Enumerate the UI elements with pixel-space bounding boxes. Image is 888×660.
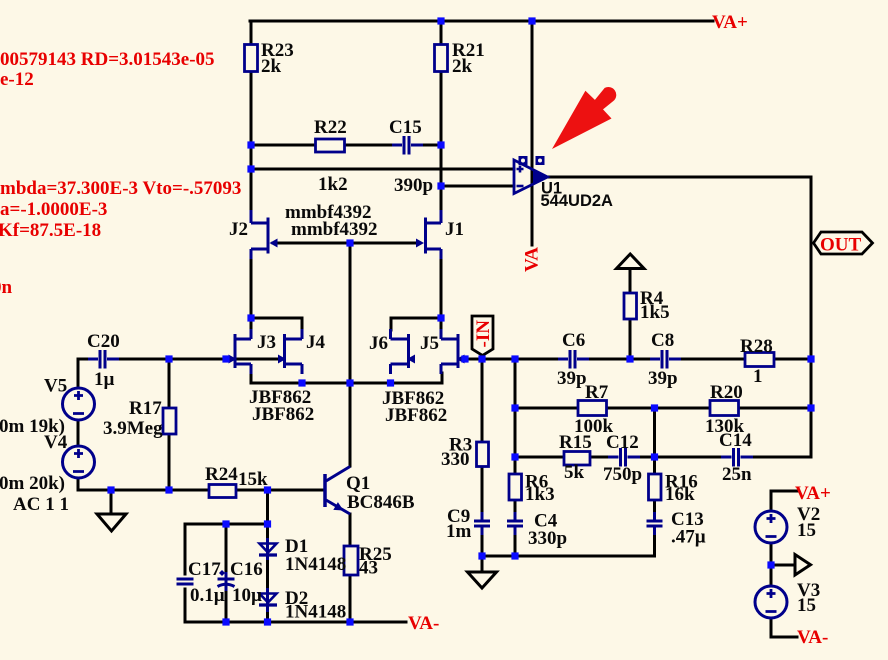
- svg-text:330: 330: [441, 449, 470, 470]
- svg-text:-IN: -IN: [473, 320, 494, 348]
- svg-text:15: 15: [797, 520, 816, 541]
- wire D1 D2 column: [266, 524, 269, 622]
- wire J2 source down: [250, 258, 253, 318]
- transistor Q1: [323, 474, 327, 507]
- svg-text:1µ: 1µ: [94, 369, 115, 390]
- wire bottom VA- rail: [185, 621, 406, 624]
- capacitor C6: [558, 349, 589, 370]
- wire gnd stub: [481, 556, 484, 572]
- resistor R21: [435, 45, 448, 72]
- op-amp U1: [514, 160, 548, 194]
- diode D1: [259, 538, 277, 560]
- resistor R22: [316, 139, 345, 152]
- svg-text:0m 20k): 0m 20k): [0, 473, 65, 494]
- svg-text:0n: 0n: [0, 277, 13, 298]
- junction (251,169): [247, 165, 254, 172]
- svg-text:15k: 15k: [238, 469, 268, 490]
- svg-text:J5: J5: [420, 333, 439, 354]
- resistor R24: [209, 485, 236, 498]
- svg-text:.47µ: .47µ: [671, 527, 706, 548]
- wire drains row right: [391, 318, 441, 330]
- junction (350,243): [346, 239, 353, 246]
- jfet J5: [441, 329, 458, 374]
- junction (267.5,622): [264, 618, 271, 625]
- svg-text:R7: R7: [585, 382, 609, 403]
- svg-text:1N4148: 1N4148: [285, 602, 346, 623]
- capacitor C8: [650, 349, 681, 370]
- svg-text:15: 15: [797, 595, 816, 616]
- svg-text:JBF862: JBF862: [385, 405, 447, 426]
- junction (350,622): [346, 618, 353, 625]
- wire cap box top: [185, 523, 268, 526]
- junction (350,383): [346, 379, 353, 386]
- jfet J3: [235, 329, 251, 374]
- wire R6 branch: [514, 359, 517, 556]
- junction (441,318): [437, 314, 444, 321]
- junction (465,359): [461, 355, 468, 362]
- svg-text:43: 43: [359, 558, 378, 579]
- junction (771,565): [767, 561, 774, 568]
- resistor R4: [624, 293, 637, 319]
- svg-text:1N4148: 1N4148: [285, 554, 346, 575]
- resistor R16: [649, 474, 662, 500]
- svg-text:C20: C20: [87, 331, 120, 352]
- junction (169,359): [165, 355, 172, 362]
- voltage source V5: [63, 388, 95, 420]
- voltage source V3: [755, 586, 787, 618]
- junction (482,556): [478, 552, 485, 559]
- diode D2: [259, 588, 277, 612]
- wire R17 branch: [168, 359, 171, 490]
- junction (441,186): [437, 182, 444, 189]
- svg-text:1m: 1m: [446, 521, 472, 542]
- svg-text:R17: R17: [129, 398, 162, 419]
- capacitor C9: [473, 512, 491, 535]
- svg-text:1k5: 1k5: [640, 302, 670, 323]
- svg-text:J3: J3: [257, 332, 276, 353]
- svg-text:25n: 25n: [722, 464, 752, 485]
- wire top rail VA+: [250, 20, 713, 23]
- junction (111,490): [107, 486, 114, 493]
- svg-text:5k: 5k: [564, 462, 585, 483]
- junction (251,318): [247, 314, 254, 321]
- svg-text:2k: 2k: [261, 56, 282, 77]
- wire R21 branch vertical: [440, 21, 443, 210]
- svg-text:mbda=37.300E-3 Vto=-.57093: mbda=37.300E-3 Vto=-.57093: [0, 178, 241, 199]
- svg-text:C8: C8: [651, 330, 674, 351]
- svg-text:J1: J1: [445, 219, 464, 240]
- svg-text:1k2: 1k2: [318, 174, 348, 195]
- wire R16 branch: [653, 408, 656, 556]
- svg-text:16k: 16k: [665, 484, 695, 505]
- junction (226,359): [222, 355, 229, 362]
- wire V5 V4 column: [77, 359, 80, 490]
- junction (482,359): [478, 355, 485, 362]
- wire Q1 emitter to R25 to rail: [349, 514, 352, 622]
- svg-text:C6: C6: [562, 330, 585, 351]
- wire mid riser gates to sources: [349, 243, 352, 466]
- junction (654.5,457): [651, 453, 658, 460]
- junction (515,359): [511, 355, 518, 362]
- svg-text:J4: J4: [306, 332, 326, 353]
- svg-text:JBF862: JBF862: [252, 404, 314, 425]
- svg-text:AC 1 1: AC 1 1: [13, 494, 69, 515]
- svg-text:0.1µ: 0.1µ: [190, 585, 225, 606]
- resistor R7: [578, 401, 607, 416]
- resistor R28: [745, 353, 774, 367]
- junction (441,21): [437, 17, 444, 24]
- junction (654.5,408): [651, 404, 658, 411]
- wire J1 source down: [440, 258, 443, 318]
- svg-text:544UD2A: 544UD2A: [541, 192, 614, 210]
- svg-text:00579143 RD=3.01543e-05: 00579143 RD=3.01543e-05: [0, 49, 215, 70]
- svg-text:R20: R20: [710, 382, 743, 403]
- svg-text:C16: C16: [230, 559, 263, 580]
- jfet J6: [391, 329, 409, 374]
- svg-text:mmbf4392: mmbf4392: [291, 219, 378, 240]
- svg-text:130k: 130k: [705, 416, 745, 437]
- svg-text:3.9Meg: 3.9Meg: [103, 418, 163, 439]
- voltage source V2: [755, 511, 787, 543]
- svg-text:J6: J6: [369, 333, 388, 354]
- svg-text:VA-: VA-: [797, 627, 828, 648]
- junction (441,145): [437, 141, 444, 148]
- svg-text:1k3: 1k3: [525, 484, 555, 505]
- wire opamp in-: [441, 185, 514, 188]
- svg-text:39p: 39p: [648, 368, 678, 389]
- wire opamp out: [547, 177, 811, 457]
- capacitor C4: [506, 512, 524, 535]
- OUT flag: [814, 232, 873, 254]
- wire R23 branch vertical: [250, 21, 253, 210]
- wire R3 branch: [481, 359, 484, 556]
- svg-text:0m 19k): 0m 19k): [0, 416, 65, 437]
- resistor R15: [564, 452, 590, 466]
- svg-text:V5: V5: [44, 376, 67, 397]
- svg-text:VA+: VA+: [795, 483, 831, 504]
- svg-text:100k: 100k: [574, 416, 614, 437]
- svg-text:BC846B: BC846B: [347, 492, 415, 513]
- ground symbol main: [468, 572, 497, 588]
- junction (515,457): [511, 453, 518, 460]
- junction (630,359): [626, 355, 633, 362]
- svg-text:C15: C15: [389, 117, 422, 138]
- junction (515,408): [511, 404, 518, 411]
- wire C17 column: [184, 524, 187, 622]
- capacitor C13: [646, 512, 664, 535]
- net flag arrow right at V2 V3: [795, 555, 811, 576]
- wire C20 gate row left: [78, 358, 283, 361]
- capacitor C15: [392, 135, 423, 156]
- jfet J2: [251, 210, 268, 259]
- wire sources row: [251, 373, 442, 383]
- wire C16 column: [225, 524, 228, 622]
- junction (226,524): [222, 520, 229, 527]
- svg-text:330p: 330p: [528, 528, 567, 549]
- junction (251,145): [247, 141, 254, 148]
- svg-text:J2: J2: [229, 219, 248, 240]
- svg-text:e-12: e-12: [0, 69, 34, 90]
- junction (515,556): [511, 552, 518, 559]
- svg-text:OUT: OUT: [820, 235, 862, 256]
- resistor R6: [509, 474, 522, 500]
- wire base junction down: [266, 490, 269, 524]
- junction (302,383): [298, 379, 305, 386]
- wire VA opamp vertical: [531, 21, 534, 245]
- junction (811,359): [807, 355, 814, 362]
- wire IN- row right: [463, 358, 811, 361]
- capacitor C12: [608, 447, 640, 468]
- svg-text:750p: 750p: [603, 464, 642, 485]
- capacitor C20: [88, 349, 119, 370]
- wire opamp in+: [251, 168, 514, 171]
- svg-text:39p: 39p: [557, 368, 587, 389]
- wire bottom input row R24: [78, 489, 323, 492]
- capacitor C17: [176, 576, 194, 588]
- svg-text:Kf=87.5E-18: Kf=87.5E-18: [0, 220, 101, 241]
- junction (226,622): [222, 618, 229, 625]
- red cursor arrow: [552, 87, 616, 149]
- wire R15 C12 C14 row: [515, 456, 811, 459]
- wire R4 branch: [629, 269, 632, 359]
- wire R22/C15 row: [251, 144, 441, 147]
- svg-text:a=-1.0000E-3: a=-1.0000E-3: [0, 199, 107, 220]
- capacitor C16 polarized: [217, 570, 235, 591]
- IN- flag: [472, 316, 493, 356]
- svg-text:R24: R24: [205, 464, 238, 485]
- wire V2 V3 column: [771, 491, 797, 637]
- jfet J4: [285, 329, 303, 374]
- svg-text:VA: VA: [522, 247, 543, 272]
- wire drains row left: [251, 318, 302, 330]
- wire J2 J1 gates: [273, 242, 419, 245]
- resistor R17: [163, 408, 176, 434]
- junction (267.5,490): [264, 486, 271, 493]
- svg-text:10µ: 10µ: [232, 585, 262, 606]
- svg-text:VA-: VA-: [408, 613, 439, 634]
- wire gnd rail caps: [482, 555, 655, 558]
- jfet J1: [426, 210, 442, 259]
- capacitor C14: [721, 447, 753, 468]
- resistor R3: [477, 442, 489, 467]
- wire ground tap: [110, 490, 113, 514]
- junction (267.5,524): [264, 520, 271, 527]
- voltage source V4: [63, 446, 95, 478]
- ground symbol input: [97, 514, 126, 531]
- junction (390.5,383): [387, 379, 394, 386]
- svg-text:390p: 390p: [394, 175, 433, 196]
- junction (811,408): [807, 404, 814, 411]
- svg-text:R22: R22: [314, 117, 347, 138]
- wire R7 R20 row: [515, 407, 811, 410]
- svg-text:VA+: VA+: [712, 12, 748, 33]
- junction (169,490): [165, 486, 172, 493]
- svg-text:2k: 2k: [452, 56, 473, 77]
- net flag arrow up at R4: [617, 254, 645, 269]
- resistor R25: [344, 546, 358, 575]
- resistor R20: [710, 401, 739, 416]
- svg-text:C17: C17: [188, 559, 221, 580]
- resistor R23: [245, 45, 258, 72]
- svg-text:Q1: Q1: [346, 473, 370, 494]
- svg-text:1: 1: [753, 366, 763, 387]
- svg-text:R28: R28: [740, 336, 773, 357]
- junction (532,21): [528, 17, 535, 24]
